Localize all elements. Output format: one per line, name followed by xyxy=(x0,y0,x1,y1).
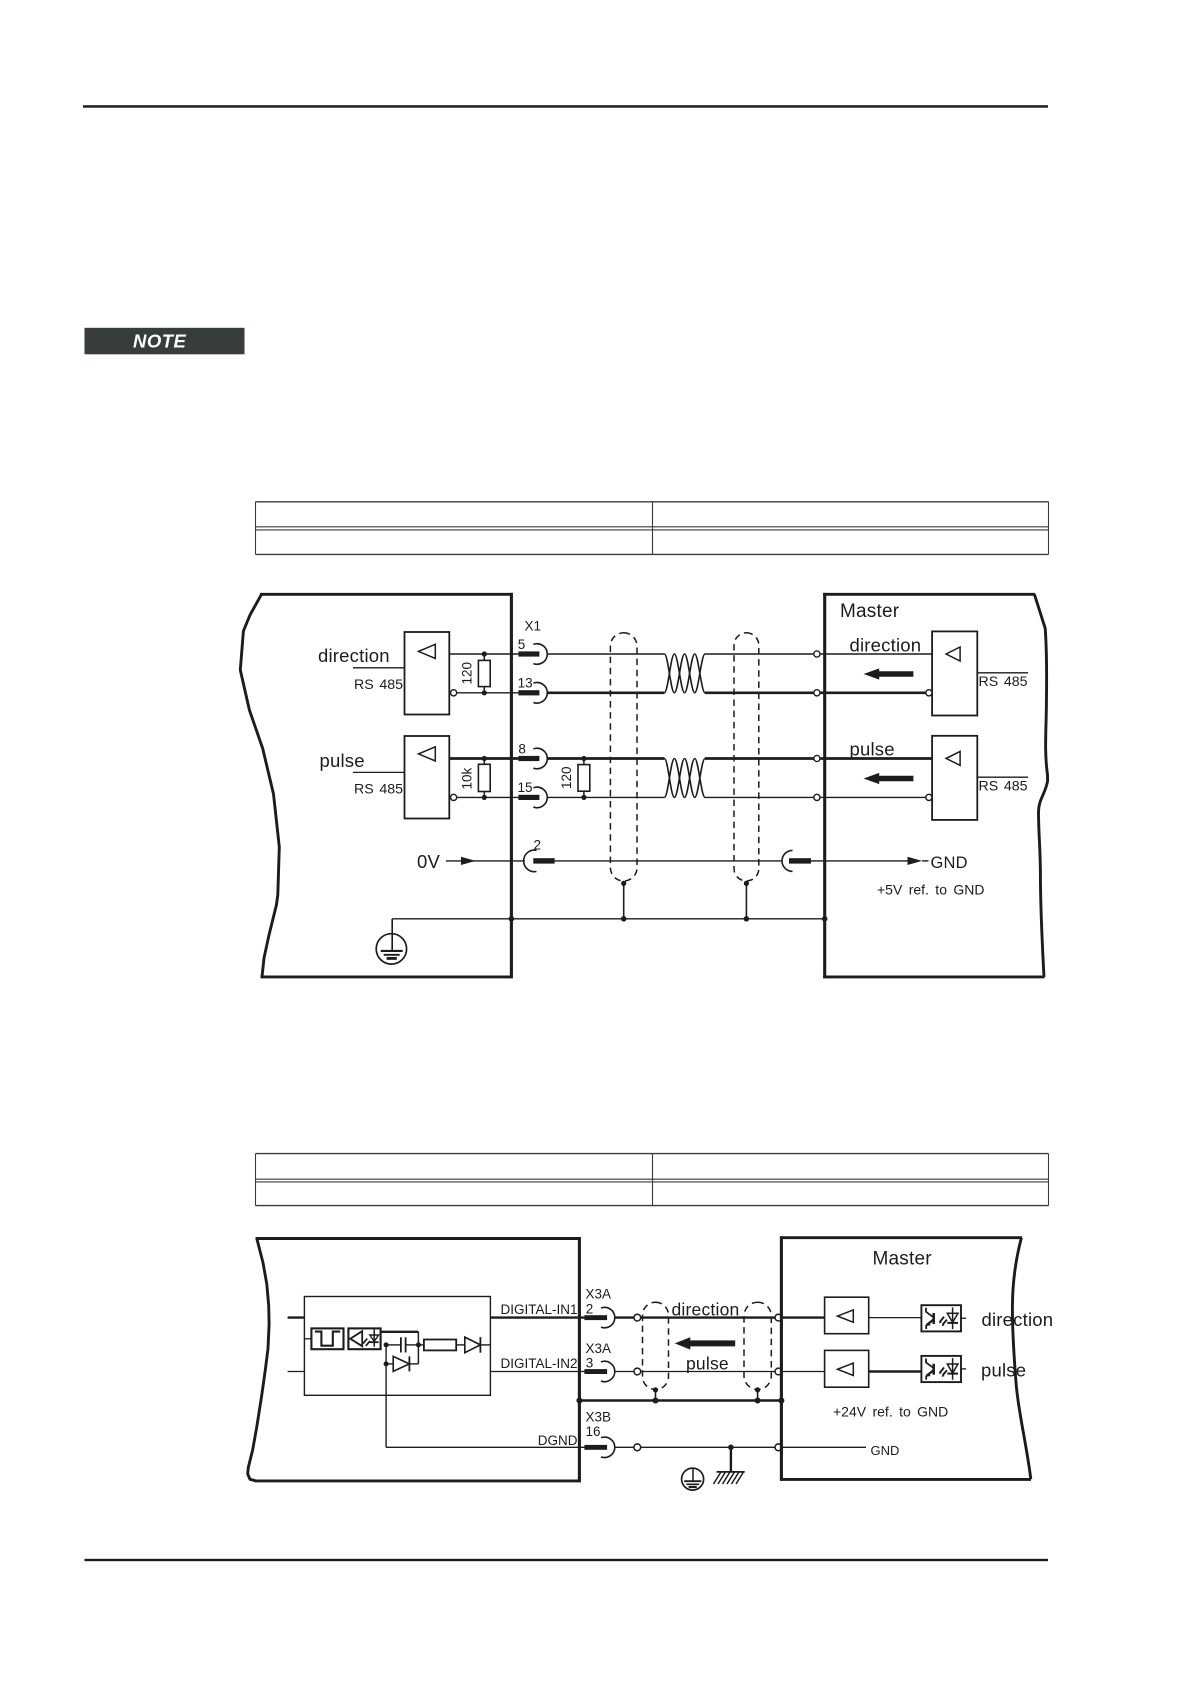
svg-text:NOTE: NOTE xyxy=(133,331,187,352)
node junction dot xyxy=(482,651,487,656)
internal stub DIGITAL-IN2 (left) xyxy=(288,1371,305,1373)
wire into master block (direction -) xyxy=(820,691,926,694)
svg-text:pulse: pulse xyxy=(850,739,895,760)
pin 13 contact bar xyxy=(518,690,539,695)
wire pin15 to cable (pulse -) xyxy=(548,796,665,798)
pin 5 socket arc xyxy=(533,644,547,665)
servo amplifier outline (schematic 2) xyxy=(248,1237,581,1482)
wire pin2 to shield circle xyxy=(615,1316,634,1318)
pin 8 contact bar xyxy=(518,756,539,761)
pin 15 socket arc xyxy=(533,787,547,808)
pulse flow arrow (master) xyxy=(864,773,914,784)
svg-text:RS 485: RS 485 xyxy=(354,781,403,797)
twisted pair (pulse) xyxy=(664,759,705,798)
wire 0V to pin 2 xyxy=(446,860,525,862)
svg-text:pulse: pulse xyxy=(320,750,365,771)
pulse shaper box xyxy=(304,1338,311,1340)
node junction dot xyxy=(482,795,487,800)
svg-text:120: 120 xyxy=(559,766,574,789)
wire to optocoupler (direction) xyxy=(869,1317,922,1319)
svg-text:0V: 0V xyxy=(417,851,440,872)
wire block to DIGITAL-IN1 pin xyxy=(490,1316,584,1318)
svg-text:+24V ref. to GND: +24V ref. to GND xyxy=(833,1404,948,1420)
pulse waveform glyph xyxy=(315,1332,340,1346)
master entry circle (GND) xyxy=(775,1444,782,1451)
junction dot at master boundary xyxy=(822,916,828,922)
flow arrow (cable) xyxy=(675,1337,736,1349)
wire pin16 to circle xyxy=(615,1446,634,1448)
svg-text:pulse: pulse xyxy=(981,1360,1026,1381)
optocoupler (master, pulse) xyxy=(921,1356,966,1382)
terminal circle xyxy=(634,1444,641,1451)
servo amplifier outline (schematic 1) xyxy=(240,593,512,978)
wire pin8 to cable (pulse +) xyxy=(548,757,665,760)
svg-text:2: 2 xyxy=(586,1302,594,1317)
pin 15 contact bar xyxy=(518,795,539,800)
master GND plug arc xyxy=(782,850,793,871)
svg-text:Master: Master xyxy=(840,601,900,622)
pin 8 socket arc xyxy=(533,748,547,769)
svg-text:RS 485: RS 485 xyxy=(979,779,1028,795)
DGND wire xyxy=(386,1446,584,1448)
U4 inverting input circle xyxy=(926,794,932,800)
junction dot right capsule drain xyxy=(744,916,750,922)
wire through cable (pulse) xyxy=(641,1371,775,1373)
U4 triangle symbol xyxy=(946,751,960,765)
resistor 120 (direction termination) xyxy=(483,654,485,660)
node junction dot xyxy=(416,1342,421,1347)
RS485 driver block U1 (direction, servo side) xyxy=(405,632,450,715)
receiver block (master, pulse) xyxy=(825,1350,869,1387)
shield drain dot capsule 1 xyxy=(653,1387,658,1392)
DGND vertical wire xyxy=(385,1345,387,1447)
shield drain dot (right capsule) xyxy=(744,881,749,886)
pulse RS485 driver block U2 (servo side) xyxy=(405,736,450,819)
pin 2 contact bar xyxy=(533,858,554,863)
table 1 frame xyxy=(256,502,1049,555)
digital input circuit block xyxy=(304,1297,490,1396)
wire pulse label to U2 xyxy=(353,771,405,773)
svg-text:Master: Master xyxy=(873,1249,933,1270)
svg-text:10k: 10k xyxy=(460,767,475,789)
chassis ground junction dot xyxy=(728,1445,734,1451)
pin 13 socket arc xyxy=(533,682,547,703)
junction dot at servo boundary xyxy=(576,1398,582,1404)
svg-text:X3B: X3B xyxy=(586,1410,612,1425)
wire pin13 to cable (direction -) xyxy=(548,691,665,694)
wire block to DIGITAL-IN2 pin xyxy=(490,1371,584,1373)
node junction dot xyxy=(482,756,487,761)
svg-text:pulse: pulse xyxy=(686,1354,729,1374)
svg-text:DIGITAL‑IN1: DIGITAL‑IN1 xyxy=(500,1302,577,1317)
master entry circle (pulse) xyxy=(775,1368,782,1375)
cable shield capsule 2 (schematic 2) xyxy=(744,1302,771,1389)
svg-text:16: 16 xyxy=(586,1424,601,1439)
wire cable to master (direction -) xyxy=(705,691,814,694)
triangle symbol xyxy=(838,1310,854,1322)
NOTE badge xyxy=(85,328,245,355)
terminal circle xyxy=(634,1368,641,1375)
wire arrowhead to GND label xyxy=(922,860,929,862)
svg-text:GND: GND xyxy=(871,1443,900,1458)
cable shield capsule 1 (schematic 2) xyxy=(643,1302,669,1389)
internal stub DIGITAL-IN1 (left) xyxy=(288,1316,305,1318)
U3 inverting input circle xyxy=(926,690,932,696)
clamp diode D1 xyxy=(386,1363,393,1365)
diode D2 xyxy=(465,1337,481,1353)
chassis ground stub xyxy=(730,1447,732,1472)
RS485 receiver block U4 (master, pulse) xyxy=(932,736,977,820)
wire U2 inverting out to pin 15 xyxy=(457,796,519,798)
node junction dot xyxy=(384,1361,389,1366)
wire into master block (pulse +) xyxy=(820,757,932,760)
svg-text:X1: X1 xyxy=(525,618,542,633)
vertical link wire xyxy=(417,1332,419,1364)
U1 triangle symbol xyxy=(419,644,436,658)
wire pin3 to circle xyxy=(615,1371,634,1373)
master GND contact bar xyxy=(789,858,811,863)
wire U2 out to pin 8 xyxy=(449,757,518,760)
wire pin 2 to master xyxy=(555,860,782,862)
protective earth symbol (servo) xyxy=(376,934,406,964)
shield drain stub 1 xyxy=(655,1390,657,1401)
svg-text:X3A: X3A xyxy=(586,1287,612,1302)
receiver block (master, direction) xyxy=(825,1297,869,1334)
svg-text:15: 15 xyxy=(518,780,533,795)
wire U1 inverting out to pin 13 xyxy=(457,692,519,694)
svg-text:120: 120 xyxy=(460,662,475,685)
junction dot capsule 1 xyxy=(653,1398,659,1404)
svg-text:DGND: DGND xyxy=(538,1433,578,1448)
wire into master (GND) xyxy=(782,1446,866,1448)
junction dot at servo boundary xyxy=(509,916,515,922)
pin X3A/3 contact bar xyxy=(584,1369,607,1374)
direction flow arrow (master) xyxy=(864,668,914,679)
pin X3A/3 socket arc xyxy=(601,1361,615,1381)
shield drain stub (right) xyxy=(745,883,747,918)
svg-text:DIGITAL‑IN2: DIGITAL‑IN2 xyxy=(500,1356,577,1371)
bottom page rule xyxy=(85,1559,1049,1561)
shield drain dot (left capsule) xyxy=(621,881,626,886)
terminal circle xyxy=(634,1314,641,1321)
master entry circle (direction) xyxy=(775,1314,782,1321)
svg-text:3: 3 xyxy=(586,1356,594,1371)
wire opto to node (top) xyxy=(381,1331,419,1333)
wire into master (pulse) xyxy=(782,1371,825,1373)
node junction dot xyxy=(581,795,586,800)
svg-text:direction: direction xyxy=(982,1309,1054,1330)
wire to optocoupler (pulse) xyxy=(869,1370,922,1372)
resistor R (input) xyxy=(418,1344,424,1346)
capacitor C1 xyxy=(386,1344,401,1346)
junction dot at master boundary xyxy=(778,1398,784,1404)
svg-text:X3A: X3A xyxy=(586,1341,612,1356)
master entry circle (direction -) xyxy=(814,690,820,696)
U3 triangle symbol xyxy=(946,647,960,661)
optocoupler LED triangle xyxy=(350,1331,362,1346)
node junction dot xyxy=(581,756,586,761)
pin X3B/16 contact bar xyxy=(584,1445,607,1450)
pin X3B/16 socket arc xyxy=(601,1437,615,1457)
svg-text:direction: direction xyxy=(850,634,922,655)
Master outline (schematic 1) xyxy=(823,593,1047,978)
cable shield capsule (right) xyxy=(734,633,759,881)
U1 inverting output circle xyxy=(451,690,457,696)
shield drain dot capsule 2 xyxy=(755,1387,760,1392)
wire into master block (direction +) xyxy=(820,653,932,655)
master entry circle (pulse +) xyxy=(814,755,820,761)
top page rule xyxy=(83,105,1048,108)
svg-text:RS 485: RS 485 xyxy=(979,674,1028,690)
svg-text:+5V ref. to GND: +5V ref. to GND xyxy=(877,882,984,898)
junction dot capsule 2 xyxy=(755,1398,761,1404)
U2 inverting output circle xyxy=(451,794,457,800)
resistor 10k xyxy=(483,759,485,765)
master entry circle (pulse -) xyxy=(814,794,820,800)
Master outline (schematic 2) xyxy=(780,1236,1031,1481)
svg-text:8: 8 xyxy=(518,741,526,756)
svg-text:direction: direction xyxy=(672,1299,740,1319)
node junction dot xyxy=(384,1342,389,1347)
pin X3A/2 contact bar xyxy=(584,1315,607,1320)
U4 output line xyxy=(977,776,1028,778)
pin 5 contact bar xyxy=(518,651,539,656)
wire into master (direction) xyxy=(782,1316,825,1318)
table 2 frame xyxy=(256,1154,1049,1206)
wire cable to master (direction +) xyxy=(705,653,814,655)
RS485 receiver block U3 (master, direction) xyxy=(932,631,977,715)
wire cable to master (pulse -) xyxy=(705,796,814,798)
wire into master block (pulse -) xyxy=(820,796,926,798)
svg-text:5: 5 xyxy=(518,637,526,652)
resistor 120 (cable termination) xyxy=(583,759,585,765)
triangle symbol xyxy=(838,1363,854,1375)
photodiode (down) xyxy=(373,1330,375,1347)
wire direction label to U1 xyxy=(353,667,405,669)
protective earth symbol (schematic 2) xyxy=(682,1468,704,1490)
wire through cable (direction) xyxy=(641,1316,775,1318)
GND wire to master xyxy=(641,1446,775,1448)
wire GND bar into master xyxy=(811,860,908,862)
node junction dot xyxy=(482,690,487,695)
optocoupler (master, direction) xyxy=(921,1305,966,1331)
optocoupler light rays xyxy=(363,1339,367,1344)
shield drain stub 2 xyxy=(757,1390,759,1401)
shield drain stub (left) xyxy=(623,883,625,918)
U3 output line xyxy=(977,672,1028,674)
U2 triangle symbol xyxy=(419,747,436,761)
svg-text:GND: GND xyxy=(931,854,968,872)
junction dot left capsule drain xyxy=(621,916,627,922)
master entry circle (direction +) xyxy=(814,651,820,657)
GND arrowhead xyxy=(908,857,923,865)
shield bus wire xyxy=(392,918,825,920)
wire U1 out to pin 5 xyxy=(449,653,518,655)
0V arrowhead xyxy=(461,857,476,865)
wire shield to PE xyxy=(391,919,393,951)
svg-text:direction: direction xyxy=(318,645,390,666)
pin X3A/2 socket arc xyxy=(601,1307,615,1327)
wire pin5 to cable (direction +) xyxy=(548,653,665,655)
svg-text:RS 485: RS 485 xyxy=(354,677,403,693)
pin 2 plug arc xyxy=(524,850,537,872)
chassis ground symbol xyxy=(714,1472,745,1484)
twisted pair (direction) xyxy=(664,654,705,693)
cable shield capsule (left) xyxy=(610,633,637,881)
wire cable to master (pulse +) xyxy=(705,757,814,760)
svg-text:13: 13 xyxy=(518,675,533,690)
shield bus wire (schematic 2) xyxy=(579,1399,781,1402)
optocoupler box (servo input) xyxy=(348,1328,380,1349)
